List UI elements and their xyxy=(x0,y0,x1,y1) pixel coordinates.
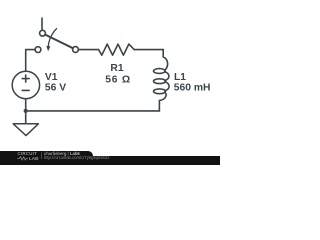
wire switch left terminal to V1 top xyxy=(26,50,35,71)
wire switch right terminal to resistor R1 xyxy=(79,49,99,51)
inductor L1 top lead xyxy=(163,50,167,71)
voltage source V1 body xyxy=(12,71,39,98)
resistor R1 zigzag xyxy=(99,44,135,55)
svg-text:L1: L1 xyxy=(174,72,186,83)
watermark full-width strip xyxy=(0,156,220,165)
switch SW1 top terminal xyxy=(40,30,46,36)
inductor L1 connector 1-2 xyxy=(165,72,169,81)
switch SW1 blade xyxy=(45,35,73,49)
svg-text:560 mH: 560 mH xyxy=(174,83,211,94)
watermark separator rule xyxy=(40,152,43,159)
wire V1 bottom to ground xyxy=(25,99,27,123)
switch SW1 throw arrow xyxy=(48,29,56,48)
inductor L1 loop 2 xyxy=(154,79,166,84)
watermark title charlieberg / Lab6 xyxy=(44,152,80,156)
junction node dot xyxy=(24,109,28,113)
inductor L1 loop 3 xyxy=(154,89,166,94)
V1 minus sign xyxy=(22,89,29,91)
svg-text:R1: R1 xyxy=(110,63,123,74)
wire top stub to switch xyxy=(41,18,43,30)
V1 plus sign xyxy=(22,75,29,82)
svg-text:56 Ω: 56 Ω xyxy=(105,75,131,86)
inductor L1 loop 1 xyxy=(154,69,166,74)
inductor L1 connector 2-3 xyxy=(165,82,169,91)
ground symbol xyxy=(13,124,38,136)
switch SW1 right terminal xyxy=(73,47,79,53)
wire bottom return from inductor to source xyxy=(26,110,160,112)
watermark rounded box xyxy=(0,151,93,165)
switch arrow head xyxy=(46,46,50,51)
circuitlab logo zigzag and LAB xyxy=(17,156,40,161)
inductor L1 bottom lead xyxy=(159,92,166,111)
circuitlab logo CIRCUIT xyxy=(18,152,38,156)
svg-text:56 V: 56 V xyxy=(45,82,66,93)
wire resistor R1 to inductor L1 top xyxy=(134,49,163,51)
svg-text:LAB: LAB xyxy=(29,156,39,161)
switch SW1 left terminal xyxy=(35,47,41,53)
watermark url xyxy=(44,156,109,160)
